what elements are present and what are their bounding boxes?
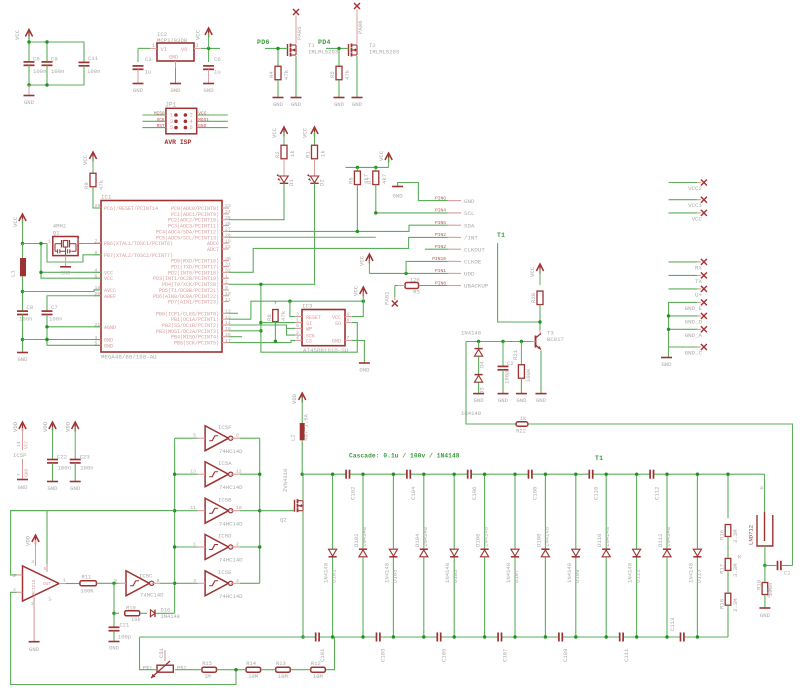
node junction rails col7 — [513, 473, 516, 639]
svg-text:C103: C103 — [380, 649, 387, 662]
svg-text:100n: 100n — [51, 68, 64, 75]
svg-text:47k: 47k — [344, 69, 351, 80]
LED D2 — [307, 174, 326, 186]
wire U+ stub — [669, 288, 701, 290]
pin IC5C in — [119, 582, 127, 584]
pin IC5E out — [231, 582, 240, 584]
node junction gate T1 — [276, 47, 279, 50]
pin header CLKOUT — [435, 244, 485, 253]
svg-text:GND: GND — [17, 484, 28, 491]
wire C8 to GND — [22, 315, 24, 353]
ground GND (C21) — [109, 642, 120, 652]
svg-text:VCC: VCC — [14, 29, 21, 40]
wire IC4 out to R11 — [66, 583, 80, 585]
svg-text:3.3M: 3.3M — [732, 599, 739, 612]
svg-text:C105: C105 — [441, 649, 448, 662]
node junction R6/SDA — [356, 230, 359, 233]
svg-text:GND: GND — [273, 101, 284, 108]
wire bus to Q2 gate — [260, 510, 295, 512]
op-amp IC4 comparator — [23, 566, 60, 601]
wire RESET drop — [290, 301, 295, 316]
svg-text:D104: D104 — [414, 533, 421, 547]
label C21 — [118, 623, 131, 641]
node junction GND row — [21, 338, 49, 341]
capacitor C101 — [316, 633, 326, 663]
svg-text:C112: C112 — [653, 487, 660, 500]
pin drain lead T2 — [356, 9, 358, 44]
wire T3 base row — [466, 341, 531, 343]
svg-text:3: 3 — [296, 311, 299, 317]
no-connect PA05 — [293, 9, 303, 40]
no-connect GND_D — [685, 313, 707, 326]
transistor T1 IRLML5203 — [288, 42, 339, 57]
ground GND (IC5P) — [17, 480, 28, 492]
wire GND_E group — [669, 302, 698, 347]
svg-text:VDD: VDD — [12, 421, 19, 432]
svg-text:2: 2 — [190, 113, 193, 119]
diode D108 1N4148 (column 8) — [535, 474, 550, 637]
svg-text:VCC: VCC — [24, 440, 30, 449]
svg-text:1N4148: 1N4148 — [483, 527, 490, 547]
capacitor C5 — [24, 56, 47, 75]
svg-text:GND_C: GND_C — [685, 350, 703, 357]
svg-text:SO: SO — [335, 321, 341, 327]
power VCC symbol (R9) — [82, 152, 97, 173]
wire IC4 inv input loop — [11, 592, 236, 684]
svg-text:CS: CS — [306, 339, 312, 345]
capacitor C109 — [559, 633, 569, 663]
svg-text:R14: R14 — [246, 661, 256, 667]
svg-text:C104: C104 — [410, 486, 417, 500]
no-connect VCC1 — [688, 197, 707, 210]
wire rail to XTAL1 — [23, 243, 48, 245]
ground GND (R4) — [273, 98, 284, 109]
wire anode feed — [764, 474, 766, 512]
svg-text:PD7(AIN1/PCINT23): PD7(AIN1/PCINT23) — [168, 300, 219, 306]
capacitor C106 — [468, 470, 478, 500]
svg-text:VCC: VCC — [353, 285, 360, 296]
svg-text:C113: C113 — [669, 618, 676, 631]
svg-text:R22: R22 — [516, 429, 526, 435]
svg-text:PD4: PD4 — [318, 39, 331, 46]
resistor R10 10k — [125, 605, 141, 623]
svg-text:PA06: PA06 — [357, 21, 364, 34]
node junction rails col3 — [392, 473, 395, 639]
diode D101 1N4148 (column 1) — [323, 474, 338, 637]
node junction rails col8 — [544, 473, 547, 639]
node junction collector — [538, 320, 541, 323]
pin IC5F in — [198, 437, 206, 439]
wire VCC rail to caps — [29, 36, 84, 63]
ground GND (T3) — [536, 394, 547, 404]
diode D109 1N4148 (column 9) — [566, 474, 581, 637]
transistor Q2 ZVN4310 — [280, 468, 303, 524]
wire UDD — [369, 272, 447, 274]
svg-text:BC817: BC817 — [547, 336, 564, 343]
svg-text:74HC14D: 74HC14D — [219, 520, 243, 527]
wire AVCC feed — [23, 290, 102, 292]
svg-text:D16: D16 — [161, 608, 171, 614]
resistor R7 — [366, 167, 388, 184]
svg-text:GND: GND — [464, 198, 475, 205]
wire R6 to SDA line — [356, 185, 358, 232]
svg-text:MISO: MISO — [154, 112, 165, 117]
ground GND (T2) — [352, 98, 363, 109]
svg-text:D109: D109 — [574, 570, 581, 583]
svg-text:GND: GND — [516, 397, 527, 404]
svg-text:PD6: PD6 — [257, 39, 270, 46]
wire VCC2 stub — [669, 182, 701, 184]
capacitor C108 — [529, 470, 539, 500]
svg-text:PB5(SCK/PCINT5): PB5(SCK/PCINT5) — [174, 341, 219, 347]
svg-text:1N4148: 1N4148 — [461, 330, 481, 337]
node junction rails col4 — [422, 473, 425, 639]
svg-text:C106: C106 — [471, 487, 478, 500]
svg-text:74HC14D: 74HC14D — [219, 593, 243, 600]
svg-text:VCC1: VCC1 — [688, 202, 702, 209]
wire tap to R10 — [114, 612, 119, 614]
node junction rails col10 — [605, 473, 608, 639]
svg-text:4: 4 — [190, 119, 193, 125]
svg-text:C8: C8 — [27, 304, 34, 311]
wire PC5/SCL — [229, 213, 448, 237]
ground GND (R19) — [759, 608, 770, 619]
svg-text:C23: C23 — [80, 454, 90, 461]
resistor R1 — [305, 145, 327, 159]
no-connect TX — [695, 272, 707, 285]
svg-text:LMC7215: LMC7215 — [32, 579, 37, 598]
wire JP1 MOSI — [197, 118, 228, 123]
wire RX stub — [669, 261, 701, 263]
svg-text:4MHz: 4MHz — [53, 223, 66, 230]
svg-text:TX: TX — [695, 278, 702, 285]
net label PD6 — [257, 39, 270, 46]
svg-text:IRLML5203: IRLML5203 — [369, 49, 399, 56]
power VDD symbol (L2) — [291, 393, 306, 423]
op IC5P power pins — [13, 428, 30, 479]
svg-text:GND: GND — [334, 101, 345, 108]
svg-text:IC1: IC1 — [101, 194, 112, 201]
inverter IC5E 74HC14D — [193, 569, 243, 600]
wire R22 to HV sense — [528, 424, 793, 566]
capacitor C105 — [437, 633, 447, 663]
wire C2 to GND — [502, 370, 504, 393]
svg-text:Q1: Q1 — [53, 230, 60, 237]
capacitor C112 — [650, 470, 660, 500]
wire R1 to D2 — [314, 159, 316, 176]
pin IC2.1 VI — [150, 43, 157, 49]
svg-text:SDA: SDA — [464, 222, 475, 229]
svg-text:GND_D: GND_D — [685, 318, 703, 325]
wire R9 to /RESET — [93, 187, 101, 208]
svg-text:GND: GND — [24, 468, 30, 477]
resistor R13 10M — [276, 661, 291, 680]
power VCC symbol (R20) — [529, 264, 544, 285]
wire divider segments — [217, 669, 311, 671]
capacitor C6 — [203, 56, 221, 76]
svg-text:GND: GND — [104, 343, 113, 349]
svg-text:1M: 1M — [204, 674, 210, 680]
node junction output bus — [258, 473, 261, 549]
resistor R9 — [83, 173, 105, 190]
svg-text:GND: GND — [661, 361, 672, 368]
ground GND (header) — [392, 187, 403, 200]
wire R3 to PA01 — [395, 286, 398, 298]
node junction R11 out — [112, 582, 115, 585]
node junction CS/R8 — [274, 340, 277, 343]
svg-text:R16: R16 — [719, 530, 726, 540]
svg-text:VCC: VCC — [359, 255, 366, 266]
wire gate T2 — [326, 48, 349, 66]
svg-text:R5: R5 — [329, 71, 336, 78]
svg-text:GND: GND — [70, 485, 81, 492]
svg-text:1: 1 — [152, 43, 155, 49]
svg-text:R9: R9 — [83, 182, 90, 189]
node junction divider top — [726, 473, 729, 476]
tube LND712 Geiger — [738, 486, 773, 561]
svg-text:GND_A: GND_A — [685, 332, 703, 339]
svg-text:1N4148: 1N4148 — [665, 527, 672, 547]
wire R4 to GND — [277, 80, 279, 97]
node junction GND group — [667, 314, 670, 331]
pins IC1 left side — [94, 203, 173, 349]
svg-text:IC5C: IC5C — [139, 573, 153, 580]
svg-text:PA01: PA01 — [384, 291, 391, 305]
svg-text:1N4148: 1N4148 — [161, 614, 180, 620]
svg-text:VCC: VCC — [12, 216, 19, 227]
node junction input bus — [173, 473, 176, 586]
svg-text:C7: C7 — [51, 304, 58, 311]
ground GND (analog) — [17, 353, 28, 364]
resistor R5 — [329, 66, 351, 80]
svg-text:VDD: VDD — [42, 421, 49, 432]
capacitor C111 — [620, 633, 630, 663]
svg-text:74HC14D: 74HC14D — [219, 484, 243, 491]
pin IC4 in+ — [13, 573, 23, 579]
wire PD2 to /INT — [229, 237, 448, 272]
connector JP1 AVR ISP body — [165, 102, 197, 147]
pin IC5B in — [198, 510, 206, 512]
svg-text:D101: D101 — [331, 569, 338, 583]
op IC3 AT45DB161D body — [302, 303, 349, 355]
wire Q2 source to bottom rail — [302, 511, 304, 637]
power VCC symbol (R2) — [271, 127, 288, 146]
power VCC symbol (IC3) — [353, 285, 367, 301]
capacitor C7 — [42, 304, 63, 323]
svg-text:6: 6 — [190, 125, 193, 131]
wire SI feed — [261, 322, 295, 324]
svg-text:D110: D110 — [596, 533, 603, 547]
node junction rails col1 — [331, 473, 334, 639]
pin header UBACKUP — [435, 280, 489, 289]
svg-text:5: 5 — [296, 323, 299, 329]
wire CLKOE — [406, 261, 447, 273]
svg-text:47k: 47k — [280, 310, 287, 321]
svg-text:PIN6: PIN6 — [435, 195, 446, 201]
pin header /INT — [435, 232, 478, 241]
svg-text:C102: C102 — [349, 487, 356, 500]
inverter IC5F 74HC14D — [193, 424, 243, 455]
pin IC5C out — [152, 582, 160, 584]
transistor T2 IRLML5203 — [349, 42, 400, 57]
svg-text:Q2: Q2 — [280, 517, 287, 524]
svg-text:GND: GND — [133, 87, 144, 94]
svg-text:UBACKUP: UBACKUP — [464, 283, 489, 290]
svg-text:VCC: VCC — [529, 266, 536, 277]
svg-text:C2: C2 — [507, 360, 514, 367]
svg-text:C22: C22 — [57, 454, 67, 461]
svg-text:PB6(XTAL1/TOSC1/PCINT6): PB6(XTAL1/TOSC1/PCINT6) — [104, 241, 173, 247]
diode D105 1N4148 (column 5) — [444, 474, 459, 637]
net label T1 (secondary) — [595, 455, 603, 462]
ground GND (Q1) — [60, 256, 71, 277]
svg-text:GND: GND — [760, 612, 771, 619]
wire gate T1 — [265, 48, 288, 66]
svg-text:23: 23 — [225, 203, 231, 209]
svg-text:1N4148: 1N4148 — [627, 563, 634, 583]
svg-text:C5: C5 — [33, 56, 40, 63]
svg-text:C108: C108 — [532, 487, 539, 500]
svg-text:GND: GND — [352, 101, 363, 108]
wire C7 to AGND/GND rows — [23, 315, 102, 346]
wire inverter input bus — [175, 438, 198, 613]
wire R17-R18 — [727, 570, 729, 593]
svg-text:C1: C1 — [784, 571, 790, 577]
wire R8 to CS row — [274, 322, 276, 342]
svg-text:GND: GND — [393, 193, 404, 200]
svg-text:74HC14D: 74HC14D — [219, 448, 243, 455]
resistor R17 3.3M — [719, 558, 740, 577]
capacitor C8 — [17, 304, 33, 323]
pin IC5D out — [231, 546, 240, 548]
svg-text:100n: 100n — [19, 316, 32, 323]
wire R21 to GND — [520, 378, 522, 393]
ground GND (R21) — [516, 394, 527, 404]
svg-text:R13: R13 — [276, 661, 286, 667]
pin IC2.2 GND — [175, 61, 177, 68]
svg-text:AREF: AREF — [104, 294, 116, 300]
svg-text:100K: 100K — [525, 368, 532, 382]
svg-text:IC5E: IC5E — [218, 569, 232, 576]
svg-text:1N4148: 1N4148 — [505, 563, 512, 583]
svg-text:D111: D111 — [635, 569, 642, 583]
wire R2 to D1 — [283, 159, 285, 176]
wire base row to R22 — [466, 342, 516, 425]
svg-text:IC3: IC3 — [302, 303, 313, 310]
svg-text:100n: 100n — [49, 316, 62, 323]
svg-text:AT45DB161D-SU: AT45DB161D-SU — [303, 347, 349, 354]
crystal Q1 4MHz — [48, 223, 80, 256]
wire L2 to rail — [301, 440, 303, 474]
ground GND (IC2) — [170, 68, 181, 94]
svg-text:GND: GND — [204, 87, 215, 94]
svg-text:IC5F: IC5F — [218, 424, 231, 431]
node junction UDD/CLKOE — [404, 272, 407, 275]
node junction VCC rail — [27, 40, 48, 43]
svg-text:D113: D113 — [695, 570, 702, 583]
wire PC4/SDA — [229, 225, 448, 231]
svg-text:VO: VO — [181, 47, 187, 53]
wire C23 to GND — [74, 463, 76, 481]
wire cascade top rail — [302, 473, 764, 475]
svg-text:VCC: VCC — [104, 276, 113, 282]
svg-text:MCP1703DB: MCP1703DB — [157, 37, 188, 44]
wire R19 to GND — [764, 595, 766, 608]
svg-text:U+: U+ — [695, 291, 702, 298]
svg-text:AVR ISP: AVR ISP — [165, 139, 192, 146]
node junction pullup rail — [356, 166, 378, 169]
svg-text:1N4148: 1N4148 — [604, 527, 611, 547]
power VDD symbol (C22) — [42, 421, 56, 459]
resistor R12 10M — [311, 661, 326, 680]
no-connect U+ — [695, 286, 707, 299]
wire source T1 to GND — [295, 56, 297, 97]
power VCC symbol (R1) — [302, 127, 319, 146]
svg-text:D4: D4 — [479, 361, 486, 368]
svg-text:R7: R7 — [366, 177, 373, 184]
svg-text:10k: 10k — [131, 617, 141, 623]
svg-text:Cascade: 0.1u / 100v / 1N4148: Cascade: 0.1u / 100v / 1N4148 — [349, 453, 460, 460]
svg-text:1k: 1k — [320, 150, 327, 157]
svg-text:7: 7 — [347, 335, 350, 341]
svg-text:PB7(XTAL2/TOSC2/PCINT7): PB7(XTAL2/TOSC2/PCINT7) — [104, 253, 173, 259]
wire R7 to SCL line — [375, 185, 377, 213]
svg-text:1k: 1k — [520, 416, 526, 422]
svg-text:R4: R4 — [268, 71, 275, 78]
wire C21 to GND — [113, 631, 115, 641]
wire R12 to bottom rail — [326, 637, 335, 670]
svg-text:VCC2: VCC2 — [688, 185, 702, 192]
wire JP1 RST — [143, 124, 166, 129]
wire IC3 VCC jog — [352, 301, 363, 316]
wire transformer primary — [498, 243, 540, 322]
wire VCC stub — [669, 212, 701, 214]
svg-text:GND: GND — [474, 397, 485, 404]
no-connect GND_E — [685, 299, 707, 312]
wire R11 node down — [113, 583, 115, 627]
svg-text:CLKOUT: CLKOUT — [464, 246, 485, 253]
power VCC symbol (analog rail) — [12, 214, 26, 244]
svg-text:100n: 100n — [87, 68, 100, 75]
svg-text:8: 8 — [347, 317, 350, 323]
svg-text:6: 6 — [347, 311, 350, 317]
inductor L1 — [10, 244, 27, 278]
svg-text:UDD: UDD — [464, 271, 475, 278]
wire AREF to C7 — [47, 296, 101, 311]
wire R16-R17 — [727, 537, 729, 559]
svg-text:R20: R20 — [530, 292, 537, 303]
svg-text:VCC: VCC — [195, 29, 202, 40]
wire PB4 stub — [229, 336, 242, 338]
wire GND pin6 header — [398, 183, 448, 201]
svg-text:10M: 10M — [248, 674, 258, 680]
svg-text:C111: C111 — [623, 648, 630, 662]
svg-text:14: 14 — [16, 441, 22, 447]
ground GND (C3) — [133, 69, 144, 94]
net label Cascade values — [349, 453, 460, 460]
wire T3 emitter to GND — [540, 351, 542, 394]
inverter IC5C 74HC14D — [114, 571, 164, 599]
svg-text:100K: 100K — [81, 589, 95, 595]
svg-text:100n: 100n — [33, 68, 46, 75]
svg-text:5: 5 — [170, 125, 173, 131]
svg-text:PC6(/RESET/PCINT14: PC6(/RESET/PCINT14 — [104, 206, 158, 212]
svg-text:31: 31 — [225, 262, 231, 268]
wire IC5C out to bus — [160, 582, 175, 584]
wire D4 to D3 — [478, 356, 480, 374]
resistor R21 100K — [512, 342, 532, 383]
op IC2 MCP1703DB body — [157, 31, 194, 61]
